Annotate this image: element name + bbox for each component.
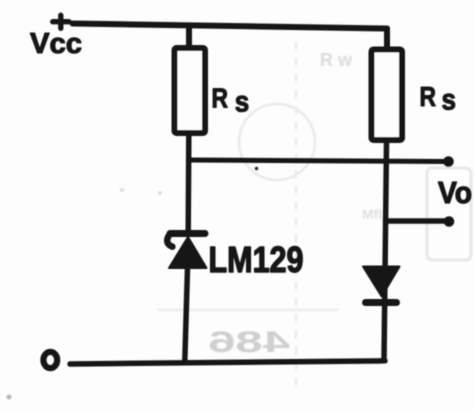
svg-text:Vo: Vo <box>438 176 472 210</box>
node 0 (ground rail terminal, label "0") <box>43 352 57 368</box>
wire right column top stub <box>384 29 390 47</box>
svg-text:R w: R w <box>320 50 353 70</box>
svg-text:LM129: LM129 <box>209 239 304 280</box>
zener diode LM129 cathode bar <box>170 230 205 237</box>
node Vo upper terminal dot <box>443 156 454 167</box>
wire mid rail to Vo <box>189 160 448 162</box>
wire lower tap <box>386 218 449 224</box>
zener diode LM129 triangle <box>169 237 207 268</box>
resistor R_s left <box>175 48 206 133</box>
wire right column long <box>384 143 387 361</box>
wire left column middle <box>185 136 191 231</box>
resistor R_s right <box>372 50 403 141</box>
node Vo lower terminal dot <box>444 216 455 227</box>
junction speck <box>255 167 259 171</box>
svg-text:s: s <box>442 84 457 117</box>
diode D1 cathode bar <box>366 299 397 306</box>
svg-text:s: s <box>235 85 250 118</box>
svg-text:486: 486 <box>208 326 290 359</box>
diode D1 triangle <box>363 267 400 297</box>
label Rs right <box>420 81 457 117</box>
wire bottom rail <box>70 361 385 364</box>
wire left column top stub <box>186 26 192 45</box>
svg-text:R: R <box>212 82 229 113</box>
ink layer <box>30 15 472 368</box>
wire left column bottom <box>185 268 188 361</box>
plus sign <box>53 15 69 28</box>
label Rs left <box>212 82 250 118</box>
svg-text:R: R <box>420 81 437 112</box>
svg-text:Vcc: Vcc <box>30 28 82 60</box>
zener left hook <box>167 236 172 247</box>
svg-text:Mfl: Mfl <box>362 206 382 222</box>
wire top rail <box>73 24 388 29</box>
